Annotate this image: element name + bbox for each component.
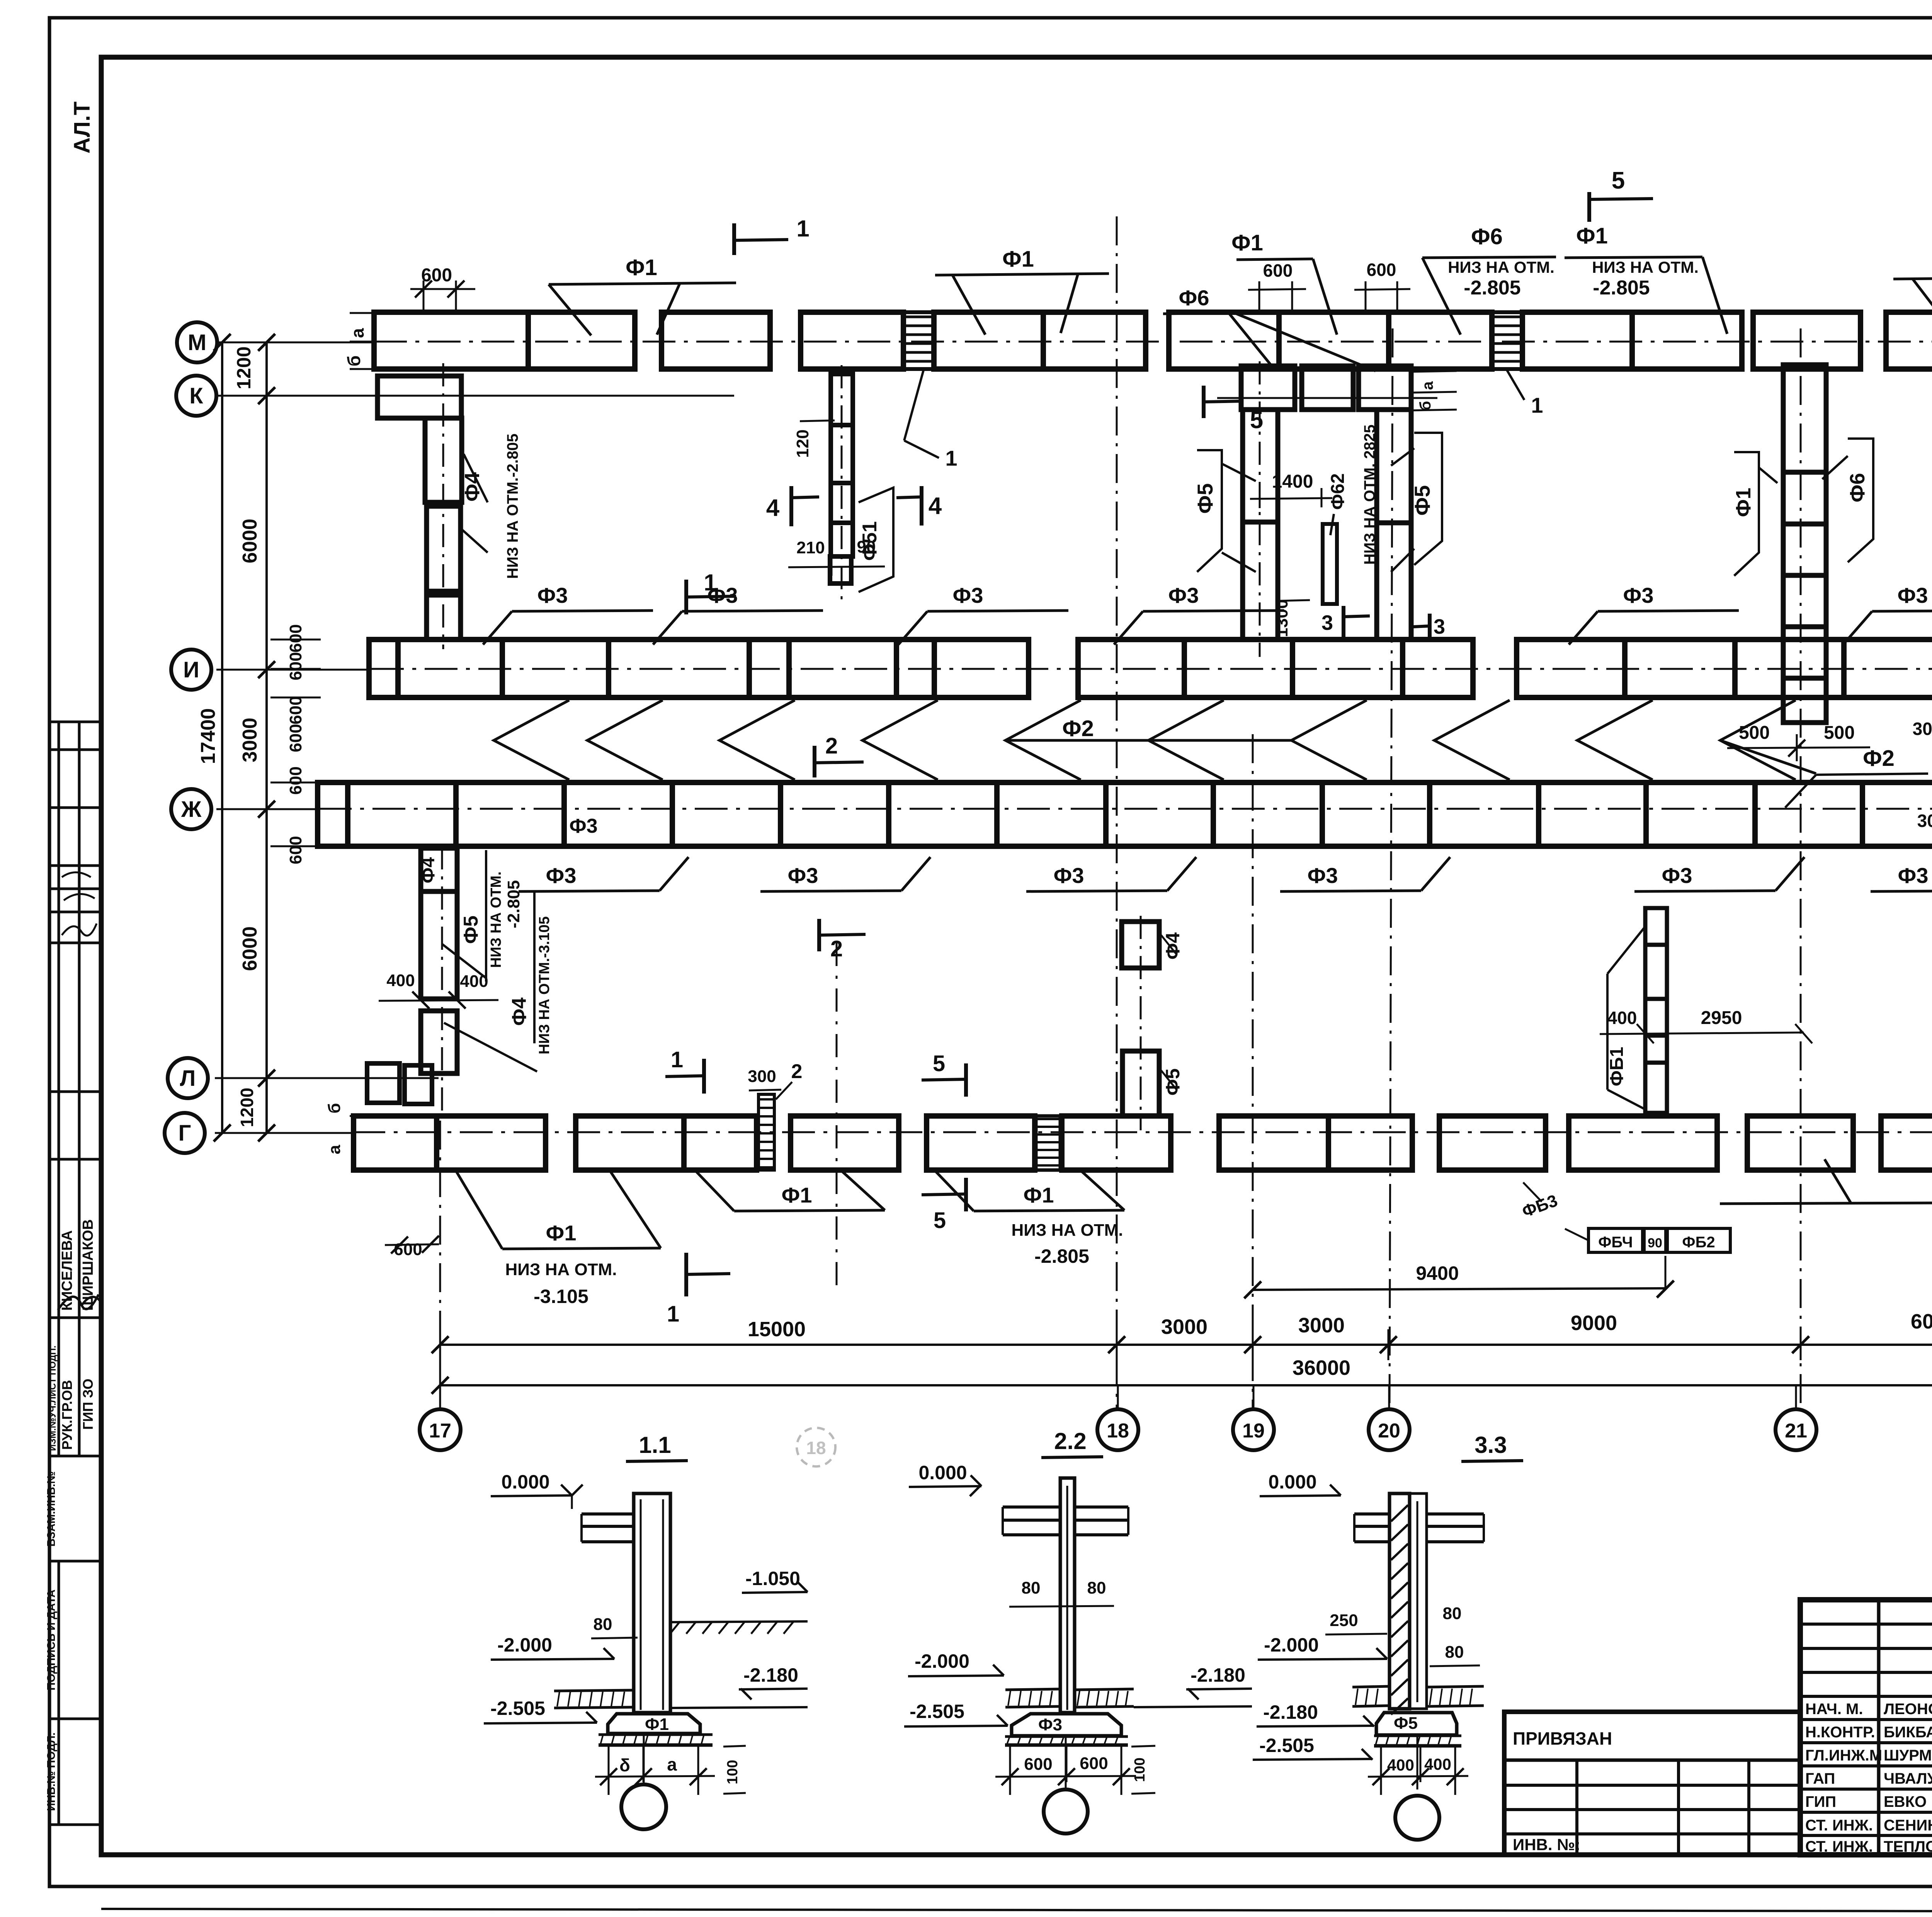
svg-text:5: 5 (1250, 407, 1263, 434)
svg-text:100: 100 (1132, 1757, 1148, 1782)
svg-text:Ф1: Ф1 (645, 1715, 669, 1734)
svg-text:17: 17 (429, 1420, 451, 1442)
column line 17 (439, 1121, 441, 1408)
svg-text:ИНВ. №:: ИНВ. №: (1513, 1835, 1580, 1854)
svg-text:0.000: 0.000 (501, 1471, 549, 1493)
left stamp strip (48, 722, 101, 1825)
svg-text:Ф3: Ф3 (788, 863, 818, 888)
svg-text:Ф1: Ф1 (1024, 1183, 1054, 1207)
svg-text:6000: 6000 (1911, 1310, 1932, 1333)
column line 21 (1800, 328, 1802, 1408)
svg-text:а: а (325, 1145, 344, 1154)
svg-text:6000: 6000 (239, 926, 261, 971)
title block outline (1800, 1600, 1932, 1855)
svg-text:-1.050: -1.050 (745, 1568, 800, 1589)
axis circle Zh (171, 789, 211, 829)
section 3-3 hatched wall (1389, 1493, 1410, 1709)
axis circle L (168, 1058, 208, 1098)
svg-text:ЧВАЛУН: ЧВАЛУН (1884, 1770, 1932, 1787)
svg-text:600: 600 (1367, 260, 1396, 280)
svg-text:Ф3: Ф3 (1308, 863, 1338, 888)
svg-text:1300: 1300 (1272, 599, 1291, 637)
long leader line mid (1005, 739, 1291, 742)
svg-text:5: 5 (933, 1051, 945, 1076)
svg-text:Ф1: Ф1 (1732, 488, 1755, 517)
svg-text:3: 3 (1434, 615, 1445, 638)
svg-text:ПОДПИСЬ И ДАТА: ПОДПИСЬ И ДАТА (45, 1589, 58, 1690)
section 2-2 floor slabs (1003, 1505, 1060, 1509)
svg-text:СЕНИНА: СЕНИНА (1884, 1817, 1932, 1834)
foundation band M blocks F1 (374, 312, 528, 369)
privyazan box (1504, 1712, 1800, 1855)
svg-text:80: 80 (1022, 1579, 1041, 1597)
svg-text:600: 600 (286, 766, 305, 794)
section mark 5-5 bottom upper (964, 1063, 968, 1097)
svg-text:Ф4: Ф4 (418, 857, 439, 883)
svg-text:Ф3: Ф3 (953, 583, 983, 607)
svg-text:19: 19 (1242, 1420, 1265, 1442)
section mark 5-5 mid (1202, 386, 1206, 418)
axis line K (216, 395, 734, 397)
svg-text:НИЗ НА ОТМ.: НИЗ НА ОТМ. (1448, 258, 1554, 276)
svg-text:90: 90 (1648, 1236, 1662, 1250)
axis line G (215, 1132, 352, 1134)
svg-text:1400: 1400 (1272, 471, 1313, 492)
section 1-1 bottom dims b a (608, 1747, 610, 1795)
section 1-1 ground hatch left (554, 1690, 634, 1691)
svg-text:600: 600 (286, 696, 305, 724)
axis line Zh (216, 808, 319, 810)
svg-text:Ф3: Ф3 (1168, 583, 1199, 607)
F51 axis dash (841, 365, 843, 605)
svg-text:а: а (347, 328, 367, 338)
svg-text:Ф5: Ф5 (1410, 485, 1434, 516)
svg-text:Ф6: Ф6 (1471, 224, 1503, 249)
axis line I (216, 669, 371, 671)
svg-text:-3.105: -3.105 (534, 1286, 588, 1307)
svg-text:ФБ1: ФБ1 (1607, 1047, 1627, 1086)
section mark 4-4 right (920, 486, 923, 526)
middle K-level blocks row (1241, 366, 1295, 410)
svg-text:-2.180: -2.180 (743, 1664, 798, 1686)
svg-text:М: М (188, 330, 206, 355)
section 1-1 axis circle (643, 1733, 645, 1784)
svg-text:120: 120 (793, 429, 812, 458)
svg-text:ТЕПЛОВА: ТЕПЛОВА (1884, 1838, 1932, 1855)
svg-text:Г: Г (179, 1121, 191, 1146)
svg-text:а: а (1419, 381, 1436, 390)
section 2-2 foundation trapezoid F3 (1012, 1714, 1121, 1736)
svg-text:БИКБАЕВА: БИКБАЕВА (1884, 1724, 1932, 1741)
svg-text:600: 600 (286, 652, 305, 680)
section mark 3-3 right (1428, 614, 1432, 638)
left wall axis dash (442, 363, 444, 649)
section 1-1 floor slab (582, 1512, 634, 1516)
svg-text:3: 3 (1321, 611, 1333, 634)
svg-text:100: 100 (724, 1760, 741, 1784)
svg-text:18: 18 (1107, 1420, 1129, 1442)
svg-text:-2.180: -2.180 (1190, 1664, 1245, 1686)
svg-text:а: а (667, 1754, 677, 1774)
svg-text:300: 300 (1917, 811, 1932, 831)
column line 18 (1116, 216, 1118, 1408)
section 2-2 base slab (1005, 1735, 1128, 1738)
svg-text:2: 2 (825, 733, 838, 759)
svg-text:Ф5: Ф5 (1193, 483, 1217, 514)
svg-text:Ф1: Ф1 (1002, 247, 1034, 272)
svg-text:Ф3: Ф3 (1623, 583, 1654, 607)
svg-text:80: 80 (1445, 1643, 1464, 1662)
ghost erased circle (797, 1428, 835, 1466)
section mark 3-3 left (1342, 606, 1345, 637)
svg-text:ПРИВЯЗАН: ПРИВЯЗАН (1513, 1728, 1612, 1749)
svg-text:4: 4 (929, 493, 942, 519)
section 2-2 wall (1060, 1478, 1075, 1713)
section 2-2 bottom dims 600 600 (1009, 1747, 1011, 1795)
svg-text:500: 500 (1824, 723, 1855, 743)
svg-text:НИЗ НА ОТМ.: НИЗ НА ОТМ. (1012, 1221, 1123, 1240)
section 1-1 base slab (599, 1733, 713, 1736)
svg-text:400: 400 (1607, 1008, 1637, 1028)
svg-text:-2.505: -2.505 (910, 1701, 964, 1722)
foundation band I blocks F3 (369, 640, 398, 697)
svg-text:300: 300 (748, 1067, 776, 1086)
svg-text:Ф1: Ф1 (1576, 223, 1608, 248)
svg-text:80: 80 (594, 1615, 612, 1634)
svg-text:Ф3: Ф3 (1038, 1715, 1062, 1734)
svg-text:600: 600 (286, 836, 305, 864)
chevron leaders F2 row (494, 700, 569, 780)
svg-text:2.2: 2.2 (1054, 1428, 1086, 1454)
section 3-3 thin wall right (1410, 1493, 1427, 1709)
svg-text:1.1: 1.1 (639, 1432, 671, 1458)
axis circle G (165, 1113, 205, 1153)
svg-text:300: 300 (1913, 719, 1932, 739)
svg-text:б: б (325, 1103, 344, 1113)
svg-text:-2.805: -2.805 (504, 880, 523, 929)
bottom right column F61 segments (1645, 908, 1667, 945)
column line 19 (1252, 734, 1254, 1408)
left dim chain outer line (221, 342, 223, 1133)
svg-text:НИЗ НА ОТМ. 2825: НИЗ НА ОТМ. 2825 (1361, 425, 1378, 565)
svg-text:ШУРМУХИНА: ШУРМУХИНА (1884, 1747, 1932, 1764)
svg-text:0.000: 0.000 (918, 1462, 967, 1483)
svg-text:400: 400 (386, 971, 415, 990)
section mark 1-1 bottom (684, 1253, 688, 1296)
svg-text:Ф1: Ф1 (626, 255, 657, 280)
section 3-3 foundation F5 (1376, 1713, 1457, 1735)
section 3-3 base slab (1374, 1735, 1461, 1737)
svg-text:5: 5 (1612, 167, 1625, 194)
left bottom wall column F4/F5 (421, 848, 457, 891)
svg-text:600: 600 (286, 624, 305, 652)
svg-text:3.3: 3.3 (1475, 1432, 1507, 1458)
svg-text:СТ. ИНЖ.: СТ. ИНЖ. (1805, 1838, 1873, 1855)
svg-text:90: 90 (857, 538, 876, 556)
stamp strip scribbles (62, 873, 97, 936)
svg-text:НИЗ НА ОТМ.: НИЗ НА ОТМ. (1592, 258, 1699, 276)
svg-text:600: 600 (421, 265, 452, 286)
svg-text:Ж: Ж (181, 797, 202, 822)
axis line M (216, 342, 374, 344)
svg-text:НАЧ. М.: НАЧ. М. (1805, 1701, 1863, 1718)
svg-text:-2.000: -2.000 (497, 1634, 552, 1656)
svg-text:1200: 1200 (233, 346, 255, 389)
svg-text:Ф3: Ф3 (707, 583, 738, 607)
wall column F51 segments (831, 374, 853, 425)
section mark 2-2 upper (813, 746, 816, 777)
svg-text:Ф3: Ф3 (1898, 583, 1928, 607)
section 1-1 wall (634, 1493, 670, 1713)
svg-text:80: 80 (1087, 1579, 1106, 1597)
svg-text:3000: 3000 (1298, 1314, 1345, 1337)
svg-text:ФБ2: ФБ2 (1682, 1234, 1715, 1251)
svg-text:-2.000: -2.000 (1264, 1634, 1319, 1656)
svg-text:-2.805: -2.805 (1593, 277, 1650, 299)
axis circle I (171, 650, 211, 690)
axis line L (215, 1077, 439, 1079)
svg-text:Ф3: Ф3 (1898, 863, 1929, 888)
long leader line under band G right (1720, 1203, 1932, 1204)
svg-text:-2.505: -2.505 (1259, 1735, 1314, 1756)
corner blocks at axis L (367, 1063, 400, 1103)
section 2-2 axis circle (1065, 1736, 1067, 1789)
svg-text:500: 500 (1739, 723, 1770, 743)
axis circle M (177, 322, 217, 362)
svg-text:Л: Л (180, 1066, 196, 1091)
svg-text:И: И (183, 657, 199, 682)
section 1-1 foundation trapezoid F1 (608, 1714, 700, 1733)
svg-text:6000: 6000 (239, 519, 261, 563)
svg-text:ЛЕОНОВ: ЛЕОНОВ (1884, 1701, 1932, 1718)
svg-text:АЛ.Т: АЛ.Т (70, 102, 95, 154)
opening 1 hatch in band M at 3863 (1493, 317, 1522, 361)
svg-text:НИЗ НА ОТМ.: НИЗ НА ОТМ. (505, 1260, 617, 1279)
section trace line near 2165 (836, 943, 838, 1294)
svg-text:18: 18 (806, 1438, 826, 1458)
svg-text:НИЗ НА ОТМ.-2.805: НИЗ НА ОТМ.-2.805 (504, 434, 521, 579)
section mark 2-2 lower (817, 919, 821, 951)
svg-text:36000: 36000 (1293, 1356, 1350, 1379)
section 3-3 bottom dims 400 400 (1380, 1747, 1382, 1795)
bottom dimension line spans (440, 1344, 1932, 1346)
svg-text:2950: 2950 (1701, 1008, 1742, 1028)
svg-text:400: 400 (1424, 1755, 1451, 1773)
svg-text:ВЗАМ.ИНВ.№: ВЗАМ.ИНВ.№ (45, 1471, 58, 1547)
section 2-2 ground hatch strips (1005, 1689, 1060, 1690)
right upper wall column F1/F6 (1783, 365, 1826, 472)
svg-text:-2.180: -2.180 (1263, 1701, 1318, 1723)
svg-text:20: 20 (1378, 1420, 1400, 1442)
svg-text:3000: 3000 (239, 718, 261, 762)
section mark 1-1 lower (684, 580, 688, 614)
svg-text:9000: 9000 (1571, 1311, 1617, 1335)
section 3-3 ground strip (1352, 1686, 1389, 1687)
section mark 1-1 bottom left (702, 1059, 706, 1094)
svg-text:ГИП: ГИП (1805, 1793, 1836, 1810)
svg-text:ИЗМ.№УЧ.ЛИСТ ПОДП.: ИЗМ.№УЧ.ЛИСТ ПОДП. (48, 1345, 58, 1451)
svg-text:РУК.ГР.ОВ: РУК.ГР.ОВ (59, 1380, 75, 1450)
svg-text:Ф3: Ф3 (546, 863, 577, 888)
svg-text:1: 1 (796, 216, 809, 242)
middle columns axis dashes (1259, 361, 1261, 657)
svg-text:ИНВ.№ ПОДЛ.: ИНВ.№ ПОДЛ. (45, 1732, 58, 1811)
left wall column F4 segments (425, 418, 462, 502)
boxed labels FB4 90 FB2 bottom (1588, 1228, 1643, 1252)
middle wall column F5 right (1377, 410, 1411, 523)
svg-text:СТ. ИНЖ.: СТ. ИНЖ. (1805, 1817, 1873, 1834)
left dim chain inner line (265, 342, 268, 1133)
opening 1 callout in band M left (904, 370, 923, 441)
svg-text:Ф2: Ф2 (1062, 716, 1094, 741)
svg-text:Ф1: Ф1 (1231, 230, 1263, 255)
section mark 1-1 top (732, 223, 736, 255)
foundation band Zh blocks F3 (318, 782, 348, 846)
svg-text:600: 600 (1024, 1755, 1052, 1774)
svg-text:Ф4: Ф4 (508, 997, 531, 1026)
section 3-3 floor slabs (1354, 1512, 1389, 1516)
svg-text:Ф1: Ф1 (546, 1221, 577, 1245)
svg-text:400: 400 (1387, 1756, 1414, 1774)
svg-text:1: 1 (945, 446, 957, 470)
svg-text:Ф6: Ф6 (1179, 286, 1209, 310)
svg-text:ФБЧ: ФБЧ (1598, 1234, 1633, 1251)
opening 2 hatch in band G at 1963 (759, 1099, 774, 1167)
svg-text:Ф5: Ф5 (1394, 1714, 1418, 1733)
svg-text:-2.805: -2.805 (1464, 277, 1520, 299)
svg-text:3000: 3000 (1161, 1315, 1207, 1339)
middle bottom block F4 (1122, 922, 1159, 968)
svg-text:1: 1 (667, 1301, 679, 1327)
svg-text:2: 2 (830, 936, 843, 961)
column circles 17-22 (439, 1385, 441, 1410)
svg-text:-2.805: -2.805 (1034, 1245, 1089, 1267)
svg-text:600: 600 (394, 1240, 422, 1259)
svg-text:0.000: 0.000 (1268, 1471, 1316, 1493)
svg-text:δ: δ (619, 1755, 630, 1775)
svg-text:Ф3: Ф3 (1054, 863, 1084, 888)
svg-text:Ф5: Ф5 (1162, 1068, 1184, 1095)
left wall block at K (378, 376, 461, 418)
bottom dimension line total 36000 (440, 1384, 1932, 1386)
svg-text:210: 210 (796, 538, 825, 557)
opening 1 callout in band M right (1507, 370, 1524, 400)
svg-text:1200: 1200 (237, 1088, 257, 1127)
svg-text:Ф3: Ф3 (537, 583, 568, 607)
svg-text:2: 2 (791, 1060, 803, 1083)
svg-text:21: 21 (1785, 1420, 1807, 1442)
svg-text:Ф4: Ф4 (1162, 932, 1184, 960)
svg-text:Ф6: Ф6 (1846, 473, 1869, 502)
svg-text:400: 400 (460, 972, 488, 991)
svg-text:15000: 15000 (748, 1318, 806, 1341)
svg-text:б: б (344, 356, 364, 366)
svg-text:ЕВКО: ЕВКО (1884, 1793, 1927, 1810)
section 3-3 axis circle (1417, 1735, 1418, 1789)
svg-text:Ф3: Ф3 (569, 815, 597, 837)
opening 1 hatch in band M at 2340 (904, 317, 933, 361)
svg-text:ГАП: ГАП (1805, 1770, 1835, 1787)
svg-text:-2.000: -2.000 (915, 1650, 969, 1672)
svg-text:17400: 17400 (197, 708, 219, 764)
svg-text:Ф62: Ф62 (1328, 473, 1348, 510)
svg-text:НИЗ НА ОТМ.-3.105: НИЗ НА ОТМ.-3.105 (536, 916, 553, 1054)
section mark 5-5 top (1587, 192, 1591, 222)
svg-text:К: К (189, 383, 203, 408)
svg-text:Ф1: Ф1 (782, 1183, 812, 1207)
svg-text:Ф2: Ф2 (1863, 746, 1895, 771)
svg-text:Ф5: Ф5 (460, 915, 482, 944)
column line 20 (1389, 328, 1393, 1408)
axis circle K (176, 376, 216, 416)
svg-text:1: 1 (1531, 393, 1543, 417)
svg-text:80: 80 (1443, 1604, 1462, 1623)
svg-text:250: 250 (1330, 1611, 1358, 1630)
svg-text:600: 600 (1263, 260, 1293, 281)
middle wall column F5 left (1243, 410, 1278, 522)
svg-text:Н.КОНТР.: Н.КОНТР. (1805, 1724, 1875, 1741)
small block F62 between middle columns (1323, 524, 1337, 604)
svg-text:ГЛ.ИНЖ.М: ГЛ.ИНЖ.М (1805, 1747, 1882, 1764)
section mark 5-5 bottom lower (964, 1178, 968, 1211)
svg-text:-2.505: -2.505 (490, 1698, 545, 1719)
svg-text:600: 600 (286, 724, 305, 752)
svg-text:9400: 9400 (1416, 1262, 1459, 1284)
svg-text:1: 1 (671, 1047, 683, 1072)
svg-text:ГИП ЗО: ГИП ЗО (80, 1379, 96, 1430)
foundation band G blocks F1 (354, 1116, 437, 1170)
svg-text:Ф3: Ф3 (1662, 863, 1692, 888)
middle bottom column F5 (1122, 1051, 1159, 1116)
svg-text:5: 5 (934, 1208, 946, 1233)
svg-text:600: 600 (1080, 1754, 1108, 1773)
svg-text:4: 4 (766, 495, 780, 521)
svg-text:НИЗ НА ОТМ.: НИЗ НА ОТМ. (488, 871, 504, 968)
opening 1 hatch in band G at 2681 (1037, 1119, 1060, 1165)
